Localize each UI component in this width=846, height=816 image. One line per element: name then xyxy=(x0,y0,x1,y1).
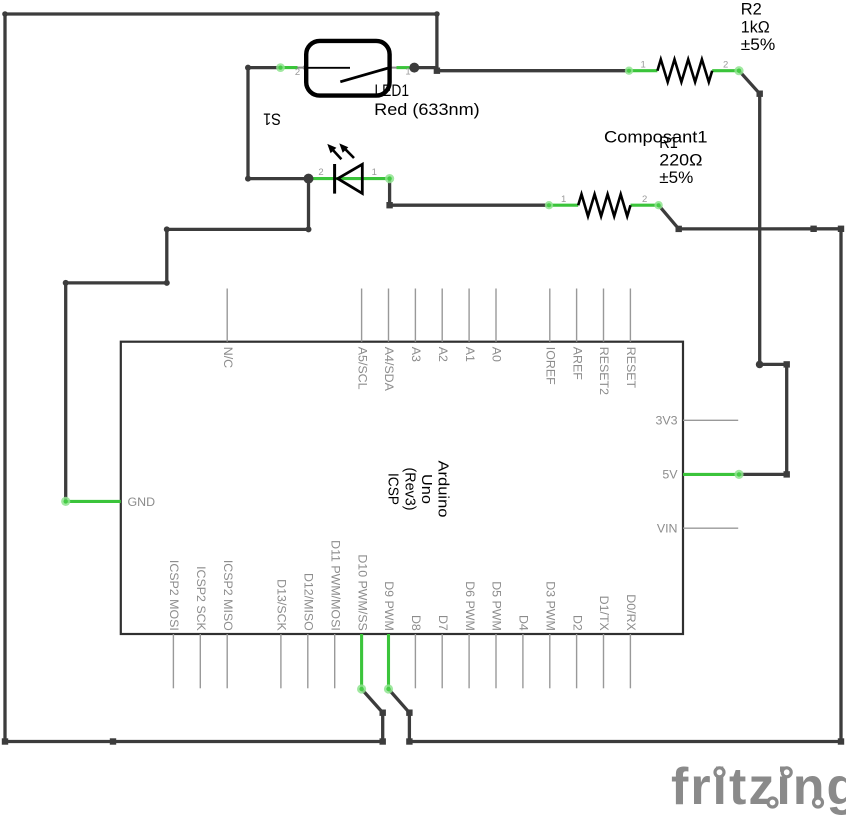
wire D10 to bottom-left rail xyxy=(362,689,383,742)
svg-text:1: 1 xyxy=(641,60,646,71)
svg-text:RESET2: RESET2 xyxy=(597,347,611,395)
svg-text:5V: 5V xyxy=(662,468,678,482)
wire endpoint glow D10 xyxy=(357,684,366,693)
resistor R2 zigzag xyxy=(657,59,712,82)
svg-text:ICSP2 SCK: ICSP2 SCK xyxy=(194,566,208,631)
LED1 triangle xyxy=(338,164,363,193)
wire endpoint glow R2 pin1 xyxy=(625,67,633,75)
svg-text:GND: GND xyxy=(128,495,156,509)
svg-text:S1: S1 xyxy=(263,110,281,128)
svg-text:D4: D4 xyxy=(517,615,531,631)
pin D5 PWM xyxy=(495,634,497,688)
wire bottom-right rail xyxy=(409,740,841,743)
resistor R1 zigzag xyxy=(578,194,630,216)
svg-text:D11 PWM/MOSI: D11 PWM/MOSI xyxy=(328,540,342,631)
switch S1 body xyxy=(306,41,389,96)
wire LED junction down xyxy=(307,179,310,230)
svg-text:AREF: AREF xyxy=(570,347,584,380)
wire left rail xyxy=(3,14,6,742)
svg-text:D8: D8 xyxy=(409,615,423,631)
switch S1 pin 1 connected xyxy=(397,66,410,69)
pin D2 xyxy=(576,634,578,688)
pin D9 PWM connected xyxy=(387,634,390,689)
wire R2 pin2 down xyxy=(739,71,760,365)
LED1 emission arrow 2 xyxy=(339,143,354,158)
svg-text:3V3: 3V3 xyxy=(655,414,677,428)
svg-text:RESET: RESET xyxy=(624,347,638,389)
svg-text:A2: A2 xyxy=(436,347,450,362)
LED1 emission arrow 1 xyxy=(327,144,341,159)
resistor R2 pin1 connected xyxy=(629,69,657,72)
svg-text:D3 PWM: D3 PWM xyxy=(544,581,558,631)
switch S1 pin 1 terminal dot xyxy=(387,65,391,69)
pin A3 xyxy=(414,289,416,342)
svg-text:±5%: ±5% xyxy=(659,169,693,187)
svg-text:A4/SDA: A4/SDA xyxy=(382,347,396,392)
pin D8 xyxy=(414,634,416,688)
svg-text:2: 2 xyxy=(723,60,728,71)
pin D12/MISO xyxy=(307,634,309,688)
pin D7 xyxy=(441,634,443,688)
wire to R2 pin1 xyxy=(437,69,629,72)
bendpoint squares xyxy=(434,68,440,74)
svg-text:D2: D2 xyxy=(570,615,584,631)
pin D3 PWM xyxy=(549,634,551,688)
wire endpoint glow D9 xyxy=(384,684,393,693)
wire step left xyxy=(167,228,309,231)
pin A5/SCL xyxy=(361,289,363,342)
pin RESET xyxy=(629,289,631,342)
svg-text:Composant1: Composant1 xyxy=(604,128,708,146)
svg-text:IOREF: IOREF xyxy=(544,347,558,385)
switch S1 pin 1 leg xyxy=(389,67,397,69)
Arduino U1 body xyxy=(121,342,683,634)
svg-text:A1: A1 xyxy=(463,347,477,362)
pin 5V connected xyxy=(683,473,739,476)
pin D4 xyxy=(522,634,524,688)
switch S1 pin 2 terminal dot xyxy=(303,65,307,69)
switch S1 lever arm xyxy=(340,68,389,82)
svg-text:R2: R2 xyxy=(741,1,762,19)
junction at S1 pin1 xyxy=(409,63,419,73)
svg-text:2: 2 xyxy=(318,167,323,178)
wire LED pin1 to R1 pin1 xyxy=(390,179,549,206)
wire switch junction to vertical xyxy=(414,68,437,71)
wire step down xyxy=(66,229,167,283)
svg-text:D6 PWM: D6 PWM xyxy=(463,581,477,631)
pin RESET2 xyxy=(603,289,605,342)
pin ICSP2 MISO xyxy=(226,634,228,688)
resistor R1 pin2 connected xyxy=(631,204,659,207)
wire endpoint glow LED pin1 xyxy=(385,174,394,183)
wire bottom-left rail xyxy=(5,740,383,743)
svg-text:2: 2 xyxy=(295,67,300,78)
resistor R2 pin2 connected xyxy=(712,69,739,72)
svg-text:1: 1 xyxy=(561,194,566,205)
pin A1 xyxy=(468,289,470,342)
svg-text:Red (633nm): Red (633nm) xyxy=(374,101,480,119)
LED1 cathode bar xyxy=(333,164,336,194)
svg-text:A5/SCL: A5/SCL xyxy=(355,347,369,390)
svg-text:D5 PWM: D5 PWM xyxy=(490,581,504,631)
wire endpoint glow R2 pin2 xyxy=(734,66,743,75)
wire down to GND xyxy=(64,283,67,502)
pin A0 xyxy=(495,289,497,342)
svg-text:D12/MISO: D12/MISO xyxy=(302,573,316,631)
svg-text:±5%: ±5% xyxy=(741,36,776,54)
svg-text:220Ω: 220Ω xyxy=(659,151,702,169)
svg-text:2: 2 xyxy=(642,194,647,205)
svg-text:A0: A0 xyxy=(490,347,504,362)
switch S1 lever common xyxy=(307,67,351,69)
wire vertical from top rail xyxy=(435,14,438,71)
switch S1 pin 2 connected xyxy=(279,66,298,69)
pin VIN xyxy=(683,527,738,529)
pin D10 PWM/SS connected xyxy=(360,634,363,689)
svg-text:ICSP2 MOSI: ICSP2 MOSI xyxy=(167,560,181,631)
svg-text:N/C: N/C xyxy=(221,347,235,368)
wire endpoint glow switch pin2 xyxy=(276,63,285,72)
svg-text:D13/SCK: D13/SCK xyxy=(275,579,289,631)
svg-text:D9 PWM: D9 PWM xyxy=(382,581,396,631)
wire right rail xyxy=(839,229,842,742)
wire top rail xyxy=(5,12,437,15)
svg-text:R1: R1 xyxy=(659,134,678,152)
svg-text:LED1: LED1 xyxy=(375,82,410,100)
pin A4/SDA xyxy=(388,289,390,342)
pin D0/RX xyxy=(629,634,631,688)
pin D13/SCK xyxy=(280,634,282,688)
pin D1/TX xyxy=(603,634,605,688)
svg-text:D7: D7 xyxy=(436,615,450,631)
wire endpoint glow R1 pin1 xyxy=(545,201,553,209)
svg-text:D1/TX: D1/TX xyxy=(597,596,611,631)
wire D9 to bottom-right rail xyxy=(389,689,410,742)
pin ICSP2 MOSI xyxy=(172,634,174,688)
pin IOREF xyxy=(549,289,551,342)
pin AREF xyxy=(576,289,578,342)
wire endpoint glow 5V xyxy=(734,470,743,479)
pin D6 PWM xyxy=(468,634,470,688)
wire endpoint glow GND xyxy=(61,497,70,506)
wire switch pin2 to LED junction xyxy=(248,68,309,179)
pin N/C xyxy=(226,289,228,342)
svg-text:ICSP2 MISO: ICSP2 MISO xyxy=(221,560,235,631)
resistor R1 pin1 connected xyxy=(549,204,578,207)
wire to 5V pin xyxy=(739,364,787,474)
svg-text:D0/RX: D0/RX xyxy=(624,594,638,631)
pin A2 xyxy=(441,289,443,342)
pin ICSP2 SCK xyxy=(199,634,201,688)
fritzing logo xyxy=(671,758,846,816)
svg-text:D10 PWM/SS: D10 PWM/SS xyxy=(355,554,369,630)
wire endpoint glow R1 pin2 xyxy=(654,201,662,209)
endpoint dots xyxy=(2,11,8,17)
pin 3V3 xyxy=(683,419,738,421)
pin D11 PWM/MOSI xyxy=(334,634,336,688)
svg-text:A3: A3 xyxy=(409,347,423,362)
svg-text:1: 1 xyxy=(372,167,377,178)
junction at LED pin2 xyxy=(304,174,314,184)
LED1 pins connected xyxy=(309,177,390,180)
wire R1 pin2 to right rail xyxy=(659,205,841,229)
svg-text:1kΩ: 1kΩ xyxy=(741,18,770,36)
pin GND connected xyxy=(66,500,121,503)
svg-text:VIN: VIN xyxy=(657,522,678,536)
switch S1 pin 2 leg xyxy=(297,67,306,69)
